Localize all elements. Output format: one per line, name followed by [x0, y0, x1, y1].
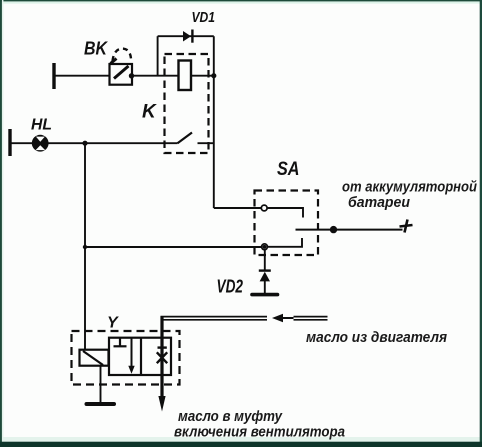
solenoid valve Y dashed box	[72, 331, 180, 385]
plus terminal	[400, 220, 413, 233]
relay contact K blade	[178, 133, 193, 144]
SA pole wire to battery	[296, 229, 403, 231]
terminal bar top-left	[52, 63, 55, 89]
terminal bar left (HL)	[8, 129, 11, 156]
svg-text:масло в муфту: масло в муфту	[178, 408, 283, 425]
temperature sensor BK box	[110, 64, 133, 85]
wire solenoid to ground	[100, 366, 102, 402]
svg-text:VD1: VD1	[192, 9, 216, 26]
wire VD1 top	[158, 35, 214, 37]
valve body	[109, 338, 171, 375]
wire to SA upper contact	[214, 207, 261, 209]
junction dot HL branch	[82, 141, 87, 146]
valve closed position X	[157, 348, 167, 364]
wire BK to relay coil	[132, 75, 179, 77]
svg-text:SA: SA	[277, 159, 300, 180]
SA upper contact circle	[261, 205, 267, 211]
valve flow arrow	[128, 338, 134, 374]
svg-text:HL: HL	[31, 117, 52, 134]
SA lower path	[268, 238, 303, 247]
flow arrow on pipe	[272, 314, 294, 322]
hydraulic pipe double line right part	[294, 317, 328, 320]
svg-text:батареи: батареи	[348, 194, 410, 211]
wire relay contact to right vertical	[198, 142, 214, 144]
ground below solenoid	[87, 402, 115, 406]
pipe outlet arrowhead	[158, 396, 165, 412]
valve blocked port T	[114, 338, 127, 347]
wire SA lower contact down to VD2	[264, 250, 266, 271]
relay coil K	[179, 61, 192, 91]
wire lower row to SA lower contact	[85, 246, 262, 248]
SA lower contact circle (junction)	[262, 244, 268, 250]
svg-text:BK: BK	[84, 39, 109, 59]
junction dot at coil wire / right vertical	[211, 73, 216, 78]
wire vertical branch from HL junction down	[84, 143, 86, 350]
svg-text:от аккумуляторной: от аккумуляторной	[342, 178, 477, 195]
wire VD1 left vertical	[157, 36, 159, 75]
BK actuation dashed arc	[111, 49, 132, 64]
hydraulic pipe vertical through valve	[160, 316, 163, 398]
diode VD2	[259, 271, 271, 293]
diode VD1	[183, 30, 192, 43]
SA upper path	[267, 208, 303, 218]
relay K dashed box	[165, 54, 209, 153]
wire HL row	[10, 142, 178, 144]
lamp HL	[32, 135, 49, 152]
svg-text:масло из двигателя: масло из двигателя	[306, 329, 447, 346]
wire right vertical from VD1 down to SA level	[213, 36, 215, 208]
wire coil to right vertical	[191, 75, 215, 77]
wire terminal to BK	[54, 75, 110, 77]
svg-text:K: K	[142, 102, 157, 123]
ground below VD2	[252, 293, 278, 297]
junction dot lower row	[83, 245, 87, 249]
junction dot on battery wire	[330, 226, 337, 233]
BK pivot dot	[129, 73, 134, 78]
svg-text:VD2: VD2	[217, 277, 244, 297]
switch SA dashed box	[255, 191, 319, 256]
svg-text:включения вентилятора: включения вентилятора	[174, 423, 345, 440]
hydraulic pipe double line left part	[161, 317, 268, 320]
solenoid Y actuator box	[80, 350, 109, 366]
svg-text:Y: Y	[107, 315, 119, 332]
